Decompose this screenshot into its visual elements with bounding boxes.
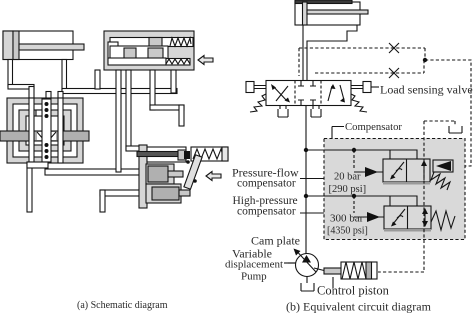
bar center relief <box>37 132 56 140</box>
load sensing valve body <box>266 81 351 106</box>
valve left position arrows <box>271 84 290 103</box>
wire pump supply <box>305 106 307 255</box>
tank bracket right <box>311 106 321 118</box>
junction dot <box>304 194 308 198</box>
pilot line PF <box>354 171 383 173</box>
pilot dashed PF <box>353 150 355 168</box>
LS drain dashed over valves <box>423 121 425 272</box>
pump housing block <box>7 98 83 163</box>
valve centre blocked ports <box>298 81 316 106</box>
leader HP label <box>300 212 324 214</box>
orifice X upper <box>389 43 399 53</box>
crossing tube left <box>29 98 34 163</box>
cylinder (section view) <box>3 31 84 60</box>
pilot dashed HP <box>353 196 355 213</box>
crossing tube right <box>58 98 63 163</box>
svg-text:[290 psi]: [290 psi] <box>329 184 367 195</box>
svg-text:Compensator: Compensator <box>345 121 402 133</box>
junction dot LS <box>423 58 427 62</box>
valve right position arrows <box>328 84 345 103</box>
svg-text:(b) Equivalent circuit diagram: (b) Equivalent circuit diagram <box>286 300 432 314</box>
svg-text:compensator: compensator <box>237 178 296 190</box>
svg-text:[4350 psi]: [4350 psi] <box>327 226 368 237</box>
LS pilot dashed net <box>299 48 471 272</box>
svg-text:300 bar: 300 bar <box>330 213 364 225</box>
cam arrow <box>206 172 221 181</box>
valve block spring <box>170 38 191 46</box>
port plate bar <box>0 131 89 141</box>
cam plate (tilted) <box>184 155 202 189</box>
wire cylinder B-line <box>307 25 357 80</box>
compensator dashed box <box>324 139 465 240</box>
svg-text:Cam plate: Cam plate <box>251 234 300 248</box>
leader load sensing valve <box>371 86 379 88</box>
link pump to control piston <box>314 268 326 271</box>
case tube with closed end <box>100 190 146 212</box>
junction dot <box>304 148 308 152</box>
leader pump label <box>284 262 296 264</box>
spool balls <box>45 102 49 159</box>
control spool <box>36 99 51 162</box>
svg-text:(a) Schematic diagram: (a) Schematic diagram <box>77 300 168 311</box>
tube valve block to supply <box>171 70 176 93</box>
leader compensator label <box>332 127 344 139</box>
wire supply to HP compensator <box>306 196 417 206</box>
spring right <box>351 94 367 112</box>
control piston <box>324 262 377 288</box>
wire cylinder A-line <box>302 25 304 80</box>
valve block spring hatch <box>166 59 190 66</box>
pilot arrow PF <box>365 167 378 177</box>
pilot arrow HP <box>367 212 380 222</box>
wire tube from cylinder cap port <box>8 60 34 99</box>
wire supply to PF compensator <box>306 150 417 159</box>
drain tube below pump block <box>27 162 48 212</box>
tube valve block to servo piston <box>116 70 141 172</box>
inlet arrow <box>198 56 213 65</box>
pilot line HP <box>354 216 384 218</box>
load cylinder <box>295 0 368 25</box>
pump P1 <box>288 249 319 277</box>
compensator valve block (section) <box>104 31 194 70</box>
svg-text:20 bar: 20 bar <box>334 172 361 183</box>
PF compensator valve U1 <box>383 159 430 185</box>
HP spring <box>431 211 455 230</box>
svg-text:Control piston: Control piston <box>317 284 390 298</box>
tank under pump <box>301 277 314 292</box>
junction dot <box>352 148 356 152</box>
leader PF label <box>300 178 324 180</box>
pilot box left <box>246 82 266 93</box>
servo cylinder <box>137 147 186 162</box>
orifice X lower <box>389 68 399 78</box>
pump piston 1 <box>146 164 183 184</box>
supply tube to servo <box>45 169 146 175</box>
tank at compensator drain <box>449 126 462 133</box>
swash plate <box>139 145 147 208</box>
tube valve block drain Z <box>150 70 184 126</box>
tank bracket left <box>278 106 288 118</box>
tube valve block left drain <box>95 70 100 89</box>
PF spring <box>431 172 450 190</box>
pump piston 2 <box>146 184 190 203</box>
svg-text:Pump: Pump <box>241 271 267 283</box>
svg-text:displacement: displacement <box>225 259 283 271</box>
spring left <box>250 94 266 112</box>
HP compensator valve U2 <box>384 206 431 232</box>
servo ball joint <box>184 151 190 159</box>
servo spring box <box>191 147 228 161</box>
PF pilot box right <box>433 160 453 172</box>
svg-text:compensator: compensator <box>237 206 296 218</box>
junction dot <box>352 194 356 198</box>
pilot box right <box>351 82 371 93</box>
wire tube from cylinder rod port <box>46 60 177 99</box>
svg-text:Load sensing valve: Load sensing valve <box>380 83 473 97</box>
